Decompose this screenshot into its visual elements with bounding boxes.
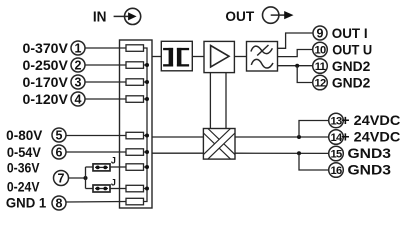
terminal 14 circle (329, 130, 344, 145)
svg-text:GND3: GND3 (348, 163, 392, 178)
svg-text:0-80V: 0-80V (6, 128, 42, 143)
bus junction dot 7b (145, 187, 149, 191)
transformer T1 (161, 41, 192, 71)
wire terminal 4 to connector (85, 98, 126, 100)
svg-text:J: J (111, 177, 116, 187)
svg-text:7: 7 (58, 171, 65, 185)
svg-text:1: 1 (75, 41, 82, 55)
jumper J top (93, 164, 110, 171)
wire amplifier to DC/DC left (209, 73, 211, 129)
bus stub contact 3 (144, 81, 148, 83)
svg-text:12: 12 (314, 78, 326, 90)
svg-text:4: 4 (75, 92, 82, 106)
terminal 8 circle (52, 196, 66, 210)
terminal 12 circle (313, 75, 328, 90)
bus stub contact 7b (144, 188, 148, 190)
wire to jumper J bottom (86, 188, 94, 190)
svg-text:5: 5 (56, 128, 63, 142)
DC/DC converter (203, 129, 235, 160)
terminal 4 circle (71, 92, 85, 106)
wire filter to terminal 11 (278, 65, 314, 67)
wire filter to terminal 10 (278, 50, 314, 57)
jumper J bottom (93, 185, 110, 192)
terminal 16 circle (329, 163, 344, 178)
wire filter to terminal 9 (278, 33, 314, 48)
IN arrow icon (114, 8, 141, 24)
junction dot GND2 (295, 64, 299, 68)
wire to jumper J top (86, 166, 94, 168)
bus junction dot 5 (145, 134, 149, 138)
terminal 13 circle (329, 113, 344, 128)
bus junction dot 2 (145, 63, 149, 67)
bus junction dot 3 (145, 80, 149, 84)
contact 1 (126, 45, 144, 52)
svg-text:J: J (111, 155, 116, 165)
junction dot GND3 (297, 151, 301, 155)
wire amplifier to filter (234, 56, 246, 58)
svg-text:OUT I: OUT I (332, 26, 368, 41)
svg-text:+ 24VDC: + 24VDC (341, 130, 400, 145)
contact 4 (126, 96, 144, 103)
terminal 11 circle (313, 59, 328, 74)
svg-text:0-170V: 0-170V (23, 75, 68, 90)
wire jumper branch vertical (85, 167, 87, 189)
terminal 9 circle (313, 26, 327, 40)
wire jumper J top to connector (110, 166, 126, 168)
wire terminal 6 to connector (66, 151, 126, 153)
svg-text:2: 2 (75, 58, 82, 72)
svg-text:9: 9 (317, 26, 324, 40)
junction dot 24VDC (297, 135, 301, 139)
bus stub contact 4 (144, 98, 148, 100)
wire branch to terminal 16 (299, 153, 329, 170)
wire transformer to amplifier (192, 56, 204, 58)
svg-text:0-370V: 0-370V (23, 41, 68, 56)
bus stub contact 2 (144, 64, 148, 66)
bus junction dot 7a (145, 165, 149, 169)
wire terminal 7 stub (69, 177, 86, 179)
wire terminal 3 to connector (85, 81, 126, 83)
svg-text:8: 8 (56, 196, 63, 210)
filter block (247, 42, 278, 72)
svg-text:16: 16 (330, 165, 342, 177)
svg-text:11: 11 (315, 61, 326, 73)
wire connector to DC/DC upper (152, 136, 203, 138)
svg-text:0-24V: 0-24V (7, 179, 40, 194)
terminal 6 circle (52, 145, 66, 159)
contact 5 (126, 132, 144, 139)
bus stub contact 5 (144, 135, 148, 137)
wire connector to DC/DC lower (152, 152, 203, 154)
svg-text:3: 3 (75, 75, 82, 89)
contact 6 (126, 149, 144, 156)
wire amplifier to DC/DC right (225, 73, 227, 129)
svg-text:GND 1: GND 1 (6, 195, 47, 210)
contact 7a (126, 164, 144, 171)
wire DC/DC to terminal 15 (235, 152, 329, 154)
bus stub contact 6 (144, 151, 148, 153)
wire branch to terminal 13 (299, 121, 329, 138)
terminal block connector (120, 40, 153, 208)
svg-text:GND2: GND2 (332, 59, 371, 74)
contact 7b (126, 185, 144, 192)
wire terminal 8 to connector (66, 201, 126, 204)
svg-text:0-250V: 0-250V (23, 58, 68, 73)
wire terminal 2 to connector (85, 64, 126, 66)
svg-text:6: 6 (56, 145, 63, 159)
contact 2 (126, 62, 144, 69)
svg-text:OUT U: OUT U (332, 42, 372, 57)
junction dot terminal 7 (84, 176, 88, 180)
svg-text:+ 24VDC: + 24VDC (341, 113, 400, 128)
bus stub contact 7a (144, 166, 148, 168)
terminal 2 circle (71, 58, 85, 72)
wire jumper J bottom to connector (110, 188, 126, 190)
wire terminal 1 to connector (85, 47, 126, 49)
amplifier A1 (204, 41, 234, 72)
contact 3 (126, 79, 144, 86)
terminal 5 circle (52, 128, 66, 142)
svg-text:IN: IN (93, 9, 107, 26)
OUT arrow icon (263, 7, 294, 23)
internal bus (144, 48, 148, 202)
terminal 15 circle (329, 146, 344, 161)
terminal 10 circle (313, 42, 328, 57)
terminal 1 circle (71, 41, 85, 55)
terminal 7 circle (54, 171, 69, 186)
svg-text:0-36V: 0-36V (7, 160, 40, 175)
wire connector to transformer (152, 56, 161, 58)
svg-text:GND2: GND2 (332, 75, 371, 90)
bus junction dot 6 (145, 150, 149, 154)
svg-text:10: 10 (314, 45, 326, 57)
svg-text:0-54V: 0-54V (7, 145, 41, 160)
svg-text:15: 15 (330, 149, 342, 161)
svg-text:OUT: OUT (225, 9, 254, 24)
svg-text:GND3: GND3 (348, 146, 392, 161)
wire terminal 5 to connector (66, 135, 126, 137)
wire DC/DC to terminal 14 (235, 136, 329, 138)
contact 8 (126, 198, 144, 205)
svg-text:0-120V: 0-120V (23, 92, 68, 107)
bus junction dot 4 (145, 97, 149, 101)
wire branch to terminal 12 (297, 66, 313, 83)
terminal 3 circle (71, 75, 85, 89)
